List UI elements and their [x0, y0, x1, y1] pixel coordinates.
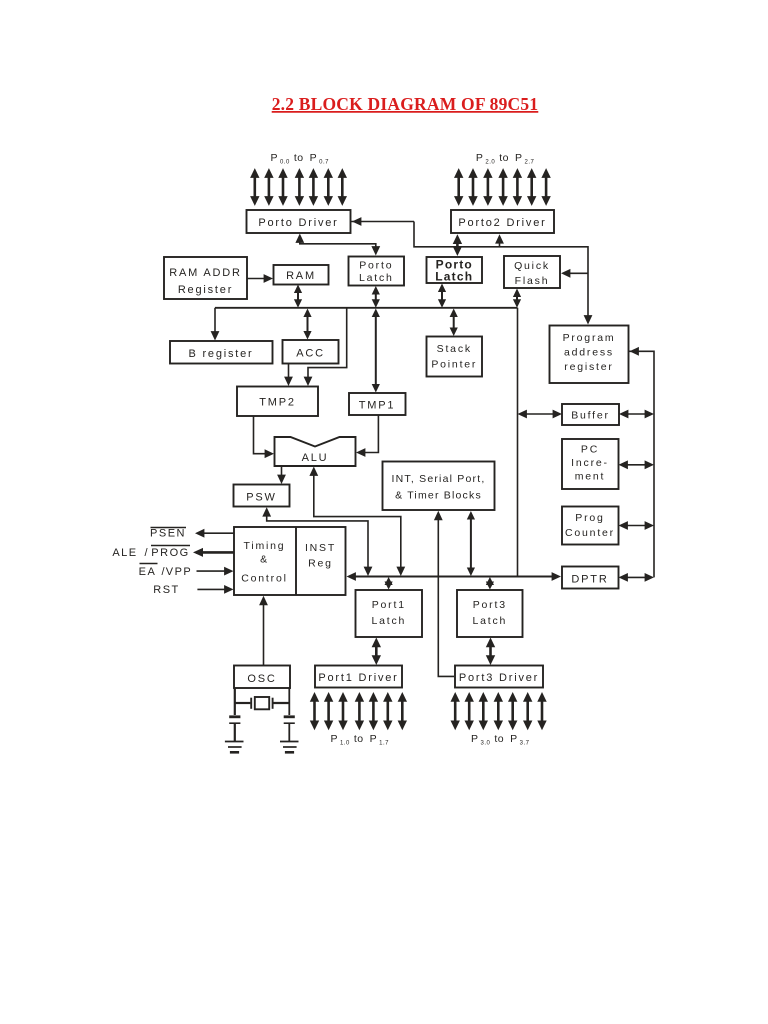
wire crystal left link	[235, 702, 251, 704]
svg-text:RAM: RAM	[286, 270, 316, 282]
label P3.0 to P3.7	[471, 733, 530, 747]
wire bus to Port3 Latch	[486, 577, 494, 590]
svg-text:ment: ment	[575, 471, 606, 483]
wire RAM ADDR to RAM	[247, 274, 273, 283]
wire crystal right leg	[288, 688, 290, 715]
wire branch to Porto2 Driver bottom	[495, 234, 504, 247]
label P0.0 to P0.7	[271, 152, 330, 166]
block Timing Control INST Reg	[234, 527, 346, 595]
wire ALE PROG out	[193, 548, 234, 557]
title heading	[272, 94, 539, 114]
block Buffer	[562, 404, 619, 425]
svg-text:OSC: OSC	[247, 673, 276, 685]
block INT Serial Port Timer	[383, 462, 495, 511]
label P2.0 to P2.7	[476, 152, 535, 166]
wire INT to lower bus	[467, 511, 475, 576]
wire bus to B register	[211, 308, 220, 341]
port3 pin arrow 4	[508, 692, 517, 730]
wire Port3 Latch to Driver	[486, 638, 495, 666]
port0 pin arrow 1	[264, 168, 273, 206]
label EA VPP	[139, 564, 193, 579]
wire Port1 Latch to Driver	[372, 638, 381, 666]
wire DPTR to right vert	[619, 573, 655, 582]
wire branch to Quick Flash	[561, 269, 588, 278]
wire bus down to lower bus	[517, 308, 519, 577]
capacitor C2 plate A	[284, 715, 295, 718]
port0 pin arrow 4	[309, 168, 318, 206]
svg-text:ACC: ACC	[296, 348, 325, 360]
block Port3 Driver	[455, 666, 543, 688]
wire Prog Counter to right vert	[619, 521, 655, 530]
block Porto Latch 2 bold	[427, 257, 483, 284]
block Port1 Latch	[356, 590, 423, 637]
wire bus around ACC to TMP2	[304, 308, 347, 386]
block Quick Flash	[504, 256, 560, 288]
svg-text:DPTR: DPTR	[571, 574, 608, 586]
wire PSW to lower bus	[262, 507, 372, 576]
port3 pin arrow 6	[537, 692, 546, 730]
svg-text:address: address	[564, 347, 614, 359]
wire C2 to ground	[288, 723, 290, 741]
block DPTR	[562, 567, 619, 589]
svg-text:Pointer: Pointer	[431, 359, 477, 371]
crystal electrode right	[272, 698, 274, 709]
ground GND1	[225, 742, 244, 753]
wire TMP2 to ALU	[254, 416, 275, 458]
svg-text:& Timer Blocks: & Timer Blocks	[395, 490, 482, 502]
svg-text:Latch: Latch	[371, 615, 406, 627]
svg-text:Latch: Latch	[359, 272, 394, 284]
port3 pin arrow 5	[523, 692, 532, 730]
wire PC Increment to right vert	[619, 460, 655, 469]
block Porto Driver	[247, 210, 351, 233]
wire main bus lower	[347, 572, 562, 581]
wire OSC to Timing Control	[259, 596, 268, 666]
port3 pin arrow 1	[465, 692, 474, 730]
port2 pin arrow 2	[483, 168, 492, 206]
svg-text:PC: PC	[581, 444, 599, 456]
block ALU	[275, 437, 356, 466]
crystal XTAL	[255, 697, 269, 709]
wire INT to Port3 Driver	[434, 511, 454, 677]
port1 pin arrow 6	[398, 692, 407, 730]
block Stack Pointer	[427, 337, 483, 377]
port1 pin arrow 2	[338, 692, 347, 730]
wire ALU to lower bus	[309, 467, 405, 577]
block PC Increment	[562, 439, 619, 489]
wire Porto Latch to bus	[372, 286, 380, 308]
svg-text:2.2 BLOCK DIAGRAM OF 89C51: 2.2 BLOCK DIAGRAM OF 89C51	[272, 94, 539, 114]
wire bus to TMP1	[372, 309, 380, 393]
wire C1 to ground	[234, 723, 236, 741]
svg-text:Control: Control	[241, 573, 287, 585]
block Porto Latch	[349, 257, 405, 286]
block PSW	[234, 485, 290, 507]
label RST	[153, 584, 180, 596]
svg-text:Porto2 Driver: Porto2 Driver	[458, 217, 546, 229]
wire bus to Stack Pointer	[450, 309, 458, 337]
ground GND2	[280, 742, 299, 753]
port1 pin arrow 5	[383, 692, 392, 730]
port0 pin arrow 0	[250, 168, 259, 206]
svg-text:VPP: VPP	[166, 566, 193, 578]
block Port1 Driver	[315, 666, 402, 688]
svg-text:ALE: ALE	[112, 547, 137, 559]
wire Porto Driver input net	[351, 217, 593, 324]
wire Porto Latch2 to bus	[438, 284, 446, 308]
port3 pin arrow 0	[451, 692, 460, 730]
svg-text:TMP1: TMP1	[359, 400, 396, 412]
block ACC	[283, 340, 339, 364]
wire PSEN out	[195, 529, 234, 538]
wire Quick Flash to bus	[513, 289, 521, 308]
port3 pin arrow 3	[494, 692, 503, 730]
crystal electrode left	[250, 698, 252, 709]
wire TMP1 to ALU	[356, 415, 378, 457]
capacitor C1 plate B	[229, 722, 240, 724]
svg-text:Prog: Prog	[575, 512, 604, 524]
wire Porto2 Driver to Porto Latch2	[453, 234, 462, 256]
port2 pin arrow 4	[513, 168, 522, 206]
svg-text:Stack: Stack	[437, 343, 472, 355]
port0 pin arrow 5	[324, 168, 333, 206]
svg-text:Port3: Port3	[473, 599, 507, 611]
block OSC	[234, 666, 290, 689]
svg-text:Porto: Porto	[359, 260, 393, 272]
svg-text:Porto Driver: Porto Driver	[258, 217, 338, 229]
wire RAM to bus	[294, 285, 302, 308]
svg-text:PSW: PSW	[246, 492, 276, 504]
wire ACC to TMP2	[284, 364, 293, 387]
svg-text:RAM ADDR: RAM ADDR	[169, 267, 241, 279]
block RAM ADDR Register	[164, 257, 247, 299]
block RAM	[274, 265, 329, 285]
port0 pin arrow 3	[295, 168, 304, 206]
capacitor C1 plate A	[229, 715, 240, 718]
label PSEN	[150, 528, 186, 540]
svg-text:INT, Serial Port,: INT, Serial Port,	[392, 473, 486, 485]
capacitor C2 plate B	[284, 722, 295, 724]
svg-text:Counter: Counter	[565, 527, 615, 539]
port2 pin arrow 5	[527, 168, 536, 206]
svg-text:Latch: Latch	[472, 615, 507, 627]
block Program address register	[550, 326, 629, 384]
port2 pin arrow 1	[468, 168, 477, 206]
port0 pin arrow 6	[338, 168, 347, 206]
svg-text:Incre-: Incre-	[571, 457, 609, 469]
block Porto2 Driver	[451, 210, 554, 233]
svg-text:Port3 Driver: Port3 Driver	[459, 672, 539, 684]
svg-text:register: register	[564, 361, 613, 373]
svg-text:TMP2: TMP2	[259, 397, 296, 409]
svg-text:Port1 Driver: Port1 Driver	[318, 672, 398, 684]
block TMP2	[237, 387, 318, 417]
wire RST in	[197, 585, 233, 594]
svg-text:ALU: ALU	[302, 452, 329, 464]
svg-text:Latch: Latch	[435, 270, 473, 284]
svg-text:Program: Program	[563, 332, 616, 344]
svg-text:Quick: Quick	[514, 260, 550, 272]
svg-text:INST: INST	[305, 542, 336, 554]
block Port3 Latch	[457, 590, 523, 637]
block B register	[170, 341, 273, 364]
port2 pin arrow 3	[498, 168, 507, 206]
svg-text:&: &	[260, 554, 269, 566]
port2 pin arrow 0	[454, 168, 463, 206]
svg-text:Reg: Reg	[308, 558, 333, 570]
label P1.0 to P1.7	[331, 733, 390, 747]
port2 pin arrow 6	[541, 168, 550, 206]
port1 pin arrow 0	[310, 692, 319, 730]
wire bus to Port1 Latch	[385, 577, 393, 590]
wire main bus upper	[215, 307, 518, 309]
label ALE PROG	[112, 546, 190, 560]
wire Buffer to right vert	[619, 410, 654, 419]
port0 pin arrow 2	[278, 168, 287, 206]
svg-text:Timing: Timing	[244, 540, 286, 552]
svg-text:EA: EA	[139, 566, 157, 578]
port1 pin arrow 1	[324, 692, 333, 730]
wire Porto Driver to Porto Latch	[295, 234, 380, 256]
port3 pin arrow 2	[479, 692, 488, 730]
port1 pin arrow 4	[369, 692, 378, 730]
block TMP1	[349, 393, 406, 415]
svg-text:Register: Register	[178, 284, 233, 296]
wire crystal left leg	[234, 688, 236, 715]
svg-text:RST: RST	[153, 584, 180, 596]
wire ALU to PSW	[277, 466, 286, 484]
wire bus to ACC	[303, 309, 311, 340]
svg-text:PSEN: PSEN	[150, 528, 186, 540]
port1 pin arrow 3	[355, 692, 364, 730]
svg-text:PROG: PROG	[151, 547, 189, 559]
wire crystal right link	[273, 702, 289, 704]
svg-text:B register: B register	[188, 348, 253, 360]
svg-text:Flash: Flash	[515, 275, 550, 287]
block Prog Counter	[562, 507, 619, 545]
wire EA VPP in	[197, 567, 234, 576]
wire left vert to Buffer	[518, 410, 563, 419]
svg-text:Buffer: Buffer	[571, 410, 610, 422]
wire right vertical	[629, 347, 655, 578]
svg-text:Port1: Port1	[372, 599, 406, 611]
